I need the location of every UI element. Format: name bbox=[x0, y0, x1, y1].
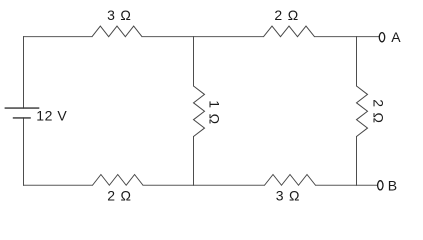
svg-text:12 V: 12 V bbox=[36, 107, 67, 123]
svg-text:A: A bbox=[391, 29, 401, 45]
svg-text:3 Ω: 3 Ω bbox=[276, 188, 301, 204]
svg-text:2 Ω: 2 Ω bbox=[274, 7, 299, 23]
svg-text:1 Ω: 1 Ω bbox=[206, 100, 222, 125]
svg-text:2 Ω: 2 Ω bbox=[107, 188, 132, 204]
svg-text:2 Ω: 2 Ω bbox=[370, 99, 386, 124]
svg-text:3 Ω: 3 Ω bbox=[107, 7, 132, 23]
svg-text:B: B bbox=[388, 178, 397, 194]
